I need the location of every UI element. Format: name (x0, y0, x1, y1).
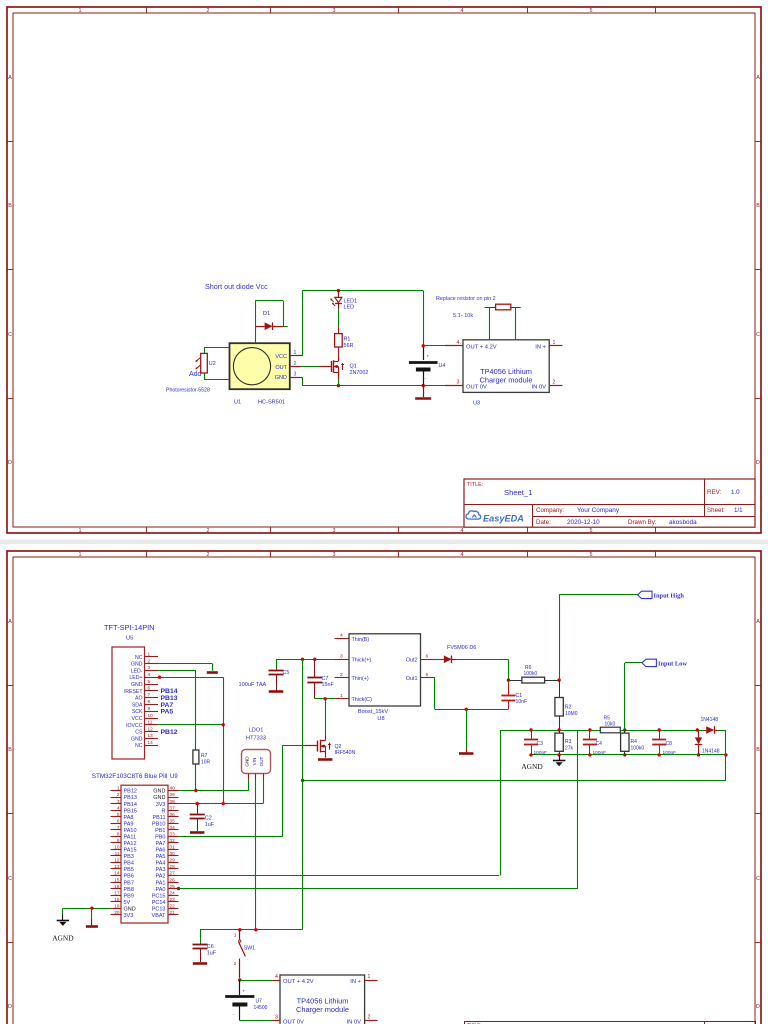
battery U7 14500 (239, 980, 241, 995)
svg-text:PB9: PB9 (124, 893, 134, 899)
svg-text:R4: R4 (631, 739, 638, 745)
svg-text:PB4: PB4 (124, 861, 134, 867)
svg-text:VBAT: VBAT (152, 913, 167, 919)
svg-text:28: 28 (170, 864, 176, 869)
wire to U3 pin4 (423, 345, 445, 347)
svg-text:PA15: PA15 (124, 848, 137, 854)
svg-text:27: 27 (170, 871, 176, 876)
svg-text:30: 30 (170, 851, 176, 856)
svg-text:C7: C7 (322, 676, 329, 682)
svg-text:IN 0V: IN 0V (347, 1019, 362, 1024)
wire R7 to GND row (195, 766, 197, 791)
wire bottom rail GND (302, 377, 304, 386)
svg-text:D: D (8, 1004, 12, 1010)
svg-text:FV5M06 D6: FV5M06 D6 (447, 645, 476, 651)
wire right corner down (725, 730, 727, 780)
svg-text:Company:: Company: (536, 507, 564, 514)
svg-text:IRF540N: IRF540N (335, 750, 356, 756)
svg-text:Input High: Input High (654, 593, 685, 600)
svg-text:Out1: Out1 (406, 676, 418, 682)
wire PB0 to Q2 gate (283, 745, 305, 747)
page gap (0, 540, 768, 545)
svg-text:6: 6 (148, 686, 151, 691)
svg-text:5.1- 10k: 5.1- 10k (453, 313, 473, 319)
transistor Q1 (338, 353, 340, 361)
wire OUT to Q1 gate (302, 366, 319, 368)
svg-text:Sheet_1: Sheet_1 (504, 488, 532, 497)
svg-text:Add: Add (189, 371, 202, 378)
svg-text:2: 2 (207, 528, 210, 534)
svg-text:PA3: PA3 (156, 867, 166, 873)
wire LDO VIN down to battery rail (255, 779, 257, 930)
svg-text:1: 1 (79, 8, 82, 14)
svg-text:AGND: AGND (52, 934, 74, 943)
svg-text:HT7333: HT7333 (246, 736, 266, 742)
svg-text:C: C (756, 332, 760, 338)
svg-text:Out2: Out2 (406, 658, 418, 664)
svg-text:+: + (242, 989, 245, 994)
wire battery minus to U10 pin3 (240, 1020, 273, 1022)
wire SW1 to U10 pin4 (239, 978, 241, 980)
U1 pin stubs (290, 355, 302, 357)
capacitor C5 (276, 659, 278, 668)
svg-text:GND: GND (131, 682, 143, 688)
ground red right of AGND (91, 908, 93, 919)
resistor R4 (624, 730, 626, 733)
svg-text:PC13: PC13 (152, 906, 166, 912)
ground U5 pin2 (207, 671, 218, 674)
svg-text:1: 1 (79, 528, 82, 534)
svg-text:1uF: 1uF (207, 951, 217, 957)
ground AGND mid (559, 755, 561, 761)
svg-text:Sheet:: Sheet: (707, 507, 725, 514)
wire U5 pin4 LED+ (158, 676, 161, 679)
svg-text:U1: U1 (234, 400, 241, 406)
svg-text:1: 1 (79, 552, 82, 558)
ground Out1 (466, 709, 468, 748)
wire U5 pin3 to R7 (158, 670, 196, 672)
svg-text:2N7002: 2N7002 (350, 370, 369, 376)
svg-text:5: 5 (148, 679, 151, 684)
wire 3V3 pin38 row junctions (196, 802, 199, 805)
svg-text:OUT 0V: OUT 0V (466, 385, 487, 391)
svg-text:GND: GND (124, 906, 136, 912)
diode D1 (255, 326, 264, 328)
svg-text:Replace resistor on pin 2: Replace resistor on pin 2 (436, 296, 496, 302)
svg-text:26: 26 (170, 877, 176, 882)
svg-text:4: 4 (461, 528, 464, 534)
svg-text:14: 14 (114, 871, 120, 876)
svg-text:OUT + 4.2V: OUT + 4.2V (466, 345, 497, 351)
svg-text:2: 2 (368, 1015, 371, 1021)
svg-text:R: R (162, 808, 166, 814)
svg-text:2: 2 (148, 658, 151, 663)
svg-text:C: C (756, 876, 760, 882)
diode D6 FV5M06 (435, 659, 441, 661)
svg-text:8: 8 (148, 699, 151, 704)
svg-text:PB10: PB10 (152, 821, 165, 827)
svg-text:PB5: PB5 (124, 867, 134, 873)
svg-text:4: 4 (340, 633, 343, 639)
svg-text:56R: 56R (344, 343, 354, 349)
svg-text:IN +: IN + (350, 979, 361, 985)
svg-text:PA6: PA6 (156, 848, 166, 854)
wire Q2 drain vertical (325, 699, 327, 736)
svg-text:1: 1 (234, 933, 237, 938)
svg-text:Date:: Date: (536, 519, 551, 526)
svg-text:PA12: PA12 (124, 841, 137, 847)
svg-text:C8: C8 (666, 741, 673, 747)
svg-text:U3: U3 (473, 400, 480, 406)
svg-text:GND: GND (131, 662, 143, 668)
svg-text:100k0: 100k0 (631, 745, 645, 751)
svg-text:AGND: AGND (521, 762, 543, 771)
EasyEDA logo (466, 511, 481, 519)
svg-text:1.0: 1.0 (731, 489, 740, 496)
svg-text:5: 5 (590, 528, 593, 534)
svg-text:35: 35 (170, 818, 176, 823)
svg-text:31: 31 (170, 845, 176, 850)
module U8 Boost_15kV (349, 634, 421, 706)
wire LDO OUT to 3V3 (263, 779, 265, 804)
svg-text:B: B (756, 203, 760, 209)
svg-text:SCK: SCK (132, 709, 143, 715)
component U1 HC-SR501 (230, 343, 290, 389)
capacitor C4 (589, 730, 591, 740)
svg-text:4: 4 (461, 552, 464, 558)
svg-text:C1: C1 (516, 693, 523, 699)
svg-text:Thin(B): Thin(B) (352, 637, 370, 643)
ground AGND left (62, 908, 64, 914)
wire PA0 row (177, 887, 180, 890)
svg-text:LED-: LED- (131, 668, 143, 674)
switch SW1 (239, 930, 241, 940)
svg-text:GND: GND (153, 789, 165, 795)
svg-text:PB8: PB8 (124, 887, 134, 893)
svg-text:15nF: 15nF (322, 682, 335, 688)
svg-text:NC: NC (135, 743, 143, 749)
svg-text:C3: C3 (537, 741, 544, 747)
svg-text:C4: C4 (596, 741, 603, 747)
wire to Input High (559, 595, 561, 680)
svg-text:1: 1 (553, 340, 556, 346)
svg-text:U2: U2 (209, 361, 216, 367)
svg-text:36: 36 (170, 812, 176, 817)
svg-text:100nF: 100nF (534, 750, 548, 756)
svg-text:18: 18 (114, 897, 120, 902)
svg-text:3V3: 3V3 (124, 913, 134, 919)
svg-text:PA4: PA4 (156, 861, 166, 867)
svg-text:PB13: PB13 (124, 795, 137, 801)
svg-text:1: 1 (340, 693, 343, 699)
svg-text:PA5: PA5 (161, 709, 174, 716)
svg-text:24: 24 (170, 890, 176, 895)
svg-text:Your Company: Your Company (577, 507, 620, 514)
module U10 TP4056 page2 (280, 975, 365, 1024)
svg-text:C: C (8, 876, 12, 882)
svg-text:A: A (756, 75, 760, 81)
wire PA2 row (179, 875, 500, 877)
svg-text:GND: GND (245, 756, 250, 767)
svg-text:5: 5 (590, 8, 593, 14)
svg-text:U4: U4 (439, 363, 446, 369)
svg-text:HC-SR501: HC-SR501 (258, 400, 285, 406)
svg-text:100nF: 100nF (663, 750, 677, 756)
svg-text:4: 4 (457, 340, 460, 346)
U8 pin stubs left (335, 638, 349, 640)
svg-text:PB15: PB15 (124, 808, 137, 814)
svg-text:9: 9 (148, 706, 151, 711)
svg-text:17: 17 (114, 890, 120, 895)
svg-text:+: + (427, 354, 430, 359)
wire GND pin19 row (63, 908, 111, 910)
svg-text:39: 39 (170, 792, 176, 797)
wire Thick(+) rail (276, 659, 335, 661)
svg-text:1/1: 1/1 (734, 507, 743, 514)
svg-text:B: B (8, 203, 12, 209)
svg-text:GND: GND (153, 795, 165, 801)
LED LED1 (338, 291, 340, 297)
svg-text:PB6: PB6 (124, 874, 134, 880)
wire battery-plus distribution (303, 780, 726, 782)
svg-text:2020-12-10: 2020-12-10 (567, 519, 600, 526)
capacitor C6 (200, 930, 202, 943)
svg-text:3: 3 (148, 665, 151, 670)
svg-text:20: 20 (114, 910, 120, 915)
svg-text:3: 3 (275, 1015, 278, 1021)
svg-text:40: 40 (170, 786, 176, 791)
svg-text:10M0: 10M0 (565, 711, 578, 717)
wire Out1 row (434, 678, 436, 709)
wire top rail VCC (302, 290, 423, 292)
svg-text:1N4148: 1N4148 (701, 717, 719, 723)
resistor 5.1-10k mod (485, 307, 496, 309)
svg-text:Boost_15kV: Boost_15kV (358, 709, 388, 715)
svg-text:1uF: 1uF (205, 822, 215, 828)
svg-text:2: 2 (234, 961, 237, 966)
svg-text:5: 5 (590, 552, 593, 558)
svg-text:2: 2 (294, 361, 297, 367)
svg-text:4: 4 (148, 672, 151, 677)
svg-text:2: 2 (207, 552, 210, 558)
flag Input High (638, 591, 652, 598)
svg-text:R2: R2 (565, 705, 572, 711)
svg-text:D: D (8, 460, 12, 466)
svg-text:LED: LED (344, 305, 355, 311)
capacitor C2 (197, 804, 199, 815)
svg-text:38: 38 (170, 799, 176, 804)
module U3 TP4056 (463, 340, 549, 393)
svg-text:REV:: REV: (707, 489, 721, 496)
svg-text:R3: R3 (565, 739, 572, 745)
capacitor C8 (659, 730, 661, 740)
svg-text:13: 13 (114, 864, 120, 869)
diode 1N4148 vertical (698, 730, 700, 737)
svg-text:16: 16 (114, 884, 120, 889)
svg-text:PB12: PB12 (124, 789, 137, 795)
svg-text:10k0: 10k0 (605, 722, 616, 728)
wire D6 down to R6 row (508, 659, 510, 680)
wire VCC drop to U1 pin1 (302, 291, 304, 356)
svg-text:12: 12 (148, 726, 154, 731)
wire RC top rail (501, 730, 601, 732)
svg-text:4: 4 (117, 805, 120, 810)
U3 pin stubs (445, 345, 463, 347)
svg-text:12: 12 (114, 858, 120, 863)
svg-text:A: A (756, 619, 760, 625)
svg-text:PA0: PA0 (156, 887, 166, 893)
svg-text:10: 10 (148, 713, 154, 718)
svg-text:4: 4 (275, 974, 278, 980)
svg-text:13: 13 (148, 733, 154, 738)
svg-text:/RESET: /RESET (124, 689, 144, 695)
svg-text:U8: U8 (377, 716, 384, 722)
wire LDO GND down (248, 779, 250, 791)
ground Q2 source (318, 758, 332, 761)
svg-text:C5: C5 (283, 670, 290, 676)
svg-text:CS: CS (135, 730, 143, 736)
svg-text:Q1: Q1 (350, 364, 357, 370)
svg-text:PB7: PB7 (124, 880, 134, 886)
svg-text:2: 2 (553, 380, 556, 386)
svg-text:SDA: SDA (132, 702, 143, 708)
U10 pin stubs (273, 980, 281, 982)
wire U5 pin11 IOVCC (158, 724, 223, 726)
svg-text:C2: C2 (205, 816, 212, 822)
svg-text:6: 6 (426, 653, 429, 659)
wire Thick(C) row (315, 698, 335, 700)
svg-text:34: 34 (170, 825, 176, 830)
resistor R7 (195, 748, 197, 750)
ground below battery (423, 386, 425, 398)
border frame (7, 551, 761, 1024)
svg-text:Drawn By:: Drawn By: (628, 519, 657, 526)
resistor R6 (508, 680, 522, 682)
svg-text:C6: C6 (207, 944, 214, 950)
svg-text:IOVCC: IOVCC (126, 723, 143, 729)
svg-text:OUT + 4.2V: OUT + 4.2V (283, 979, 314, 985)
svg-text:PA10: PA10 (124, 828, 137, 834)
ground C2 (190, 831, 204, 834)
svg-text:PA9: PA9 (124, 821, 134, 827)
svg-text:STM32F103C8T6 Blue Pill: STM32F103C8T6 Blue Pill (92, 773, 168, 780)
svg-text:SW1: SW1 (244, 946, 255, 952)
wire resistor mod to U3 top (489, 307, 491, 340)
svg-text:PB3: PB3 (124, 854, 134, 860)
svg-text:29: 29 (170, 858, 176, 863)
svg-text:3: 3 (333, 552, 336, 558)
svg-text:OUT: OUT (275, 365, 287, 371)
svg-text:3: 3 (333, 8, 336, 14)
svg-text:Charger module: Charger module (296, 1005, 349, 1014)
svg-text:3: 3 (457, 380, 460, 386)
node SW1 to battery (238, 978, 241, 981)
svg-text:21: 21 (170, 910, 176, 915)
wire battery top rail (200, 929, 303, 931)
svg-text:OUT: OUT (259, 756, 264, 766)
svg-text:PA2: PA2 (156, 874, 166, 880)
svg-text:5V: 5V (124, 900, 131, 906)
svg-text:IN 0V: IN 0V (532, 385, 547, 391)
svg-text:15: 15 (114, 877, 120, 882)
svg-text:IN +: IN + (535, 345, 546, 351)
flag Input Low (642, 659, 656, 666)
svg-text:akosboda: akosboda (669, 519, 697, 526)
svg-text:PA11: PA11 (124, 834, 137, 840)
svg-text:C: C (8, 332, 12, 338)
wire LED+/IOVCC vertical to 3V3 (223, 677, 225, 803)
capacitor C7 (314, 659, 316, 678)
node GND junction battery (422, 384, 425, 387)
svg-text:VIN: VIN (252, 758, 257, 766)
battery U4 (423, 346, 425, 360)
svg-text:PC15: PC15 (152, 893, 166, 899)
svg-text:Thick(+): Thick(+) (352, 658, 372, 664)
svg-text:1: 1 (117, 786, 120, 791)
svg-text:R6: R6 (525, 665, 532, 671)
svg-text:9: 9 (117, 838, 120, 843)
svg-text:R7: R7 (201, 753, 208, 759)
wire long vertical Thick(+) feed (302, 659, 304, 930)
resistor R1 (338, 326, 340, 334)
U8 pin stubs right (421, 659, 435, 661)
svg-text:PA1: PA1 (156, 880, 166, 886)
svg-text:AO: AO (135, 696, 143, 702)
svg-text:EasyEDA: EasyEDA (483, 514, 524, 524)
svg-text:11: 11 (115, 851, 120, 856)
svg-text:37: 37 (170, 805, 176, 810)
transistor Q2 IRF540N (325, 736, 327, 741)
svg-text:27k: 27k (565, 745, 574, 751)
wire U2 to U1 (204, 348, 206, 354)
svg-text:TFT-SPI-14PIN: TFT-SPI-14PIN (104, 623, 155, 632)
svg-text:3V3: 3V3 (156, 802, 166, 808)
svg-text:PB1: PB1 (155, 828, 165, 834)
wire LED1 to R1 (338, 309, 340, 326)
svg-text:D1: D1 (263, 311, 270, 317)
wire GND pin40 row (179, 790, 249, 792)
svg-text:33: 33 (170, 831, 176, 836)
svg-text:25: 25 (170, 884, 176, 889)
svg-text:A: A (8, 619, 12, 625)
svg-text:5: 5 (117, 812, 120, 817)
svg-text:14: 14 (148, 740, 154, 745)
svg-text:4: 4 (461, 8, 464, 14)
capacitor C3 (531, 730, 533, 740)
svg-text:D: D (756, 1004, 760, 1010)
wire to Input Low (624, 663, 626, 730)
svg-text:Thin(+): Thin(+) (352, 676, 369, 682)
svg-text:PC14: PC14 (152, 900, 166, 906)
resistor R5 (600, 727, 620, 733)
svg-text:U9: U9 (170, 774, 178, 780)
svg-text:B: B (756, 747, 760, 753)
svg-text:1: 1 (368, 974, 371, 980)
svg-text:11: 11 (148, 720, 153, 725)
svg-text:D: D (756, 460, 760, 466)
svg-text:100k0: 100k0 (524, 671, 538, 677)
svg-text:NC: NC (135, 655, 143, 661)
node VCC junction LED (337, 289, 340, 292)
svg-text:Charger module: Charger module (480, 375, 533, 384)
svg-text:10R: 10R (201, 760, 211, 766)
svg-text:8: 8 (117, 831, 120, 836)
svg-text:PB12: PB12 (161, 729, 178, 736)
border frame (7, 7, 761, 533)
wire D1 loop (255, 300, 283, 302)
svg-text:2: 2 (340, 672, 343, 678)
svg-text:19: 19 (114, 903, 120, 908)
